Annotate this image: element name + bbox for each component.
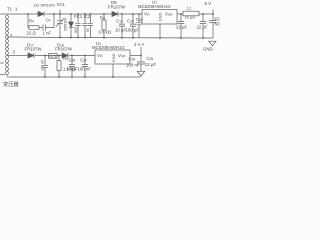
svg-text:NC: NC [215, 22, 221, 27]
svg-text:C35: C35 [147, 56, 154, 61]
svg-text:22 µF: 22 µF [145, 62, 156, 67]
svg-text:22 µH: 22 µH [185, 15, 196, 20]
svg-text:FR107W: FR107W [55, 47, 73, 52]
svg-text:变压器: 变压器 [3, 80, 19, 88]
svg-text:FR107W: FR107W [108, 5, 126, 10]
svg-text:C14: C14 [116, 19, 123, 24]
svg-text:C15: C15 [127, 19, 134, 24]
svg-text:Vin: Vin [144, 12, 150, 17]
svg-text:Vout: Vout [118, 53, 125, 58]
svg-text:22 Ω: 22 Ω [27, 31, 37, 36]
svg-text:VC1: VC1 [57, 2, 66, 7]
svg-text:1 nF: 1 nF [43, 31, 52, 36]
svg-text:MC6209A50H1G: MC6209A50H1G [92, 45, 125, 50]
svg-text:C4: C4 [46, 18, 51, 23]
svg-text:GND: GND [158, 13, 163, 22]
svg-text:6C3: 6C3 [50, 55, 57, 59]
svg-text:100 µF: 100 µF [126, 28, 140, 33]
svg-text:100 nF: 100 nF [78, 67, 92, 72]
svg-text:C16: C16 [136, 17, 143, 22]
svg-text:FC1: FC1 [74, 14, 83, 19]
svg-text:D2 SR5100: D2 SR5100 [34, 3, 55, 8]
svg-text:Vin: Vin [97, 53, 103, 58]
svg-text:C27: C27 [80, 58, 87, 63]
svg-text:5 V: 5 V [205, 1, 212, 6]
svg-text:MC6209A50H1G: MC6209A50H1G [138, 4, 171, 9]
svg-text:500: 500 [74, 27, 78, 33]
svg-text:50: 50 [86, 28, 90, 32]
svg-text:L2: L2 [187, 6, 191, 11]
svg-text:C34: C34 [129, 57, 136, 62]
svg-text:R5: R5 [63, 56, 68, 61]
svg-text:22 µF: 22 µF [197, 25, 208, 30]
svg-text:10 µF: 10 µF [67, 67, 78, 72]
svg-text:100 nF: 100 nF [126, 63, 140, 68]
svg-text:0.6 kΩ: 0.6 kΩ [99, 30, 112, 35]
svg-text:22 µF: 22 µF [176, 25, 187, 30]
svg-text:R9: R9 [100, 16, 105, 21]
svg-text:R4: R4 [29, 19, 34, 24]
svg-text:FR107W: FR107W [25, 47, 43, 52]
svg-text:GND: GND [203, 47, 213, 52]
svg-text:GND: GND [111, 54, 116, 63]
svg-text:Vout: Vout [165, 12, 172, 17]
svg-text:100 nF: 100 nF [41, 59, 45, 71]
svg-text:SR5100: SR5100 [64, 18, 68, 31]
svg-text:3 V A: 3 V A [134, 42, 144, 47]
svg-text:C26: C26 [69, 58, 76, 63]
svg-text:T1: T1 [7, 7, 13, 12]
svg-text:IC2: IC2 [84, 14, 91, 19]
